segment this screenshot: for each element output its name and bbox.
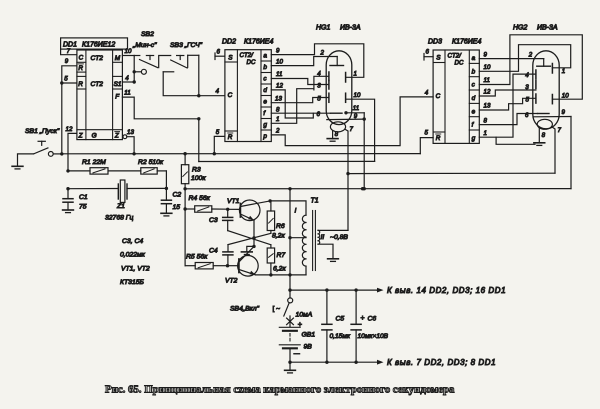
switch SB2 fixed contact (146, 55, 153, 57)
HG1 pin 11 node (344, 111, 347, 114)
wire filament bus (348, 172, 555, 174)
switch SB1 fixed contact (38, 140, 45, 142)
VT2 emitter with arrow (239, 270, 256, 275)
svg-text:0,022мк: 0,022мк (120, 252, 146, 259)
svg-text:g: g (263, 122, 267, 129)
IC DD2 body (225, 50, 271, 142)
wire SB3 right contact down (187, 55, 189, 67)
DD3 pin 6 set stub (423, 54, 425, 61)
HG1 pin 10 wire to bus2 (346, 99, 375, 161)
svg-text:8: 8 (335, 131, 339, 138)
svg-text:SB2: SB2 (141, 31, 154, 38)
svg-text:b: b (472, 68, 476, 75)
svg-text:12: 12 (276, 83, 283, 90)
svg-text:1: 1 (484, 130, 487, 137)
T1 secondary winding II (318, 230, 320, 244)
svg-text:12: 12 (66, 126, 73, 133)
svg-text:C: C (436, 93, 441, 100)
VT1 collector (240, 201, 270, 207)
wire battery minus down (289, 348, 291, 362)
HG1 segment pin 10 bar (345, 93, 347, 102)
DD2 pin 5 reset wire (214, 136, 225, 153)
wire DD2 a to HG1 pin 1 (wrap over top) (271, 44, 364, 78)
svg-text:2: 2 (320, 50, 325, 57)
HG1 grid 2 electrode (336, 57, 338, 66)
HG1 segment pin 5 bar (328, 93, 330, 102)
svg-text:C: C (79, 55, 84, 62)
svg-text:6: 6 (317, 111, 321, 118)
HG1 segment pin 4 bar (328, 72, 330, 81)
svg-text:ИВ-3А: ИВ-3А (340, 25, 361, 32)
svg-text:К выв. 14 DD2, DD3; 16 DD1: К выв. 14 DD2, DD3; 16 DD1 (387, 286, 506, 295)
wire R5 to VT2 base (228, 265, 239, 267)
wire positive rail to arrow (290, 289, 378, 291)
svg-text:+: + (361, 315, 365, 322)
svg-text:15: 15 (173, 204, 181, 211)
svg-text:Рис. 65. Принципиальная схема: Рис. 65. Принципиальная схема карманного… (105, 383, 455, 395)
wire DD2 d to HG1 pin 6 line (271, 90, 313, 118)
svg-text:С6: С6 (368, 316, 377, 323)
svg-text:7: 7 (350, 126, 354, 133)
wire clock bus (199, 160, 375, 162)
svg-text:VT1: VT1 (227, 198, 240, 205)
svg-text:R: R (78, 81, 83, 88)
HG2 grid 6 electrode (538, 113, 550, 115)
battery minus ground (289, 362, 291, 370)
svg-text:8: 8 (484, 117, 488, 124)
svg-text:6: 6 (525, 112, 529, 119)
svg-text:10: 10 (125, 48, 132, 55)
svg-text:R3: R3 (192, 167, 201, 174)
svg-text:S: S (228, 54, 233, 61)
switch SB1 moving contact arm (34, 148, 48, 154)
svg-text:DD1: DD1 (63, 41, 77, 48)
IC DD1 K176IE12 label box (61, 38, 128, 49)
svg-text:4: 4 (525, 72, 529, 79)
svg-text:e: e (263, 99, 267, 106)
svg-text:7: 7 (558, 127, 562, 134)
wire DD3 e to HG2 pin 5 (479, 98, 536, 110)
svg-text:S: S (436, 55, 441, 62)
svg-text:g: g (472, 135, 476, 142)
svg-text:C3, C4: C3, C4 (122, 238, 143, 245)
svg-text:HG1: HG1 (316, 25, 331, 32)
svg-text:8: 8 (276, 107, 280, 114)
HG2 segment pin 3 bar (535, 80, 537, 89)
svg-text:R: R (436, 135, 441, 142)
svg-text:DD2: DD2 (222, 39, 236, 46)
wire SB2 right contact to SB3 (159, 56, 171, 68)
DD1 pin 10 riser (133, 56, 135, 83)
T1 center tap wire (290, 237, 306, 239)
svg-text:C5: C5 (336, 316, 345, 323)
svg-text:75: 75 (79, 204, 87, 211)
HG1 grid pin 9 wire (327, 118, 364, 121)
svg-text:C: C (228, 92, 233, 99)
svg-text:I: I (295, 208, 297, 215)
svg-text:a: a (472, 55, 476, 62)
svg-text:32768 Гц: 32768 Гц (105, 215, 133, 222)
wire DD2 p carry to DD3 C input (271, 97, 433, 146)
svg-text:R5 56к: R5 56к (186, 254, 208, 261)
DD1 reset riser to SB1 node (61, 83, 63, 154)
svg-text:13: 13 (484, 103, 491, 110)
svg-text:~0,8В: ~0,8В (330, 234, 348, 241)
svg-text:10: 10 (484, 64, 491, 71)
DD1 pin 5 wire (62, 82, 77, 84)
HG2 filament (537, 119, 552, 129)
svg-text:b: b (263, 64, 267, 71)
VT1 emitter with arrow (240, 214, 254, 220)
svg-text:3: 3 (317, 82, 321, 89)
wire DD2 f to HG1 pin 6 (271, 112, 330, 114)
svg-text:11: 11 (124, 90, 130, 97)
svg-text:C1: C1 (79, 194, 88, 201)
wire DD2 g riser to pin 4 (314, 76, 329, 90)
wire SB1 to reset node (53, 153, 62, 155)
capacitor C5 0.15uF (326, 290, 328, 324)
svg-text:~: ~ (276, 306, 280, 313)
crystal Z1 32768 Hz (68, 188, 118, 190)
svg-text:11: 11 (276, 71, 282, 78)
HG1 pin 7 wire to filament supply (345, 129, 348, 230)
HG2 pin 9 wire to anode bus (533, 116, 571, 118)
svg-text:11: 11 (484, 77, 490, 84)
wire anode supply bus (185, 188, 571, 190)
svg-text:4: 4 (425, 89, 429, 96)
svg-text:VT2: VT2 (225, 277, 238, 284)
svg-text:GB1: GB1 (302, 332, 316, 339)
svg-text:[: [ (273, 306, 275, 313)
wire R4 to VT1 base (228, 208, 241, 210)
svg-text:R7: R7 (277, 252, 286, 259)
wire DD3 g to HG2 pin 4 (479, 74, 536, 137)
svg-text:К выв. 7 DD2, DD3; 8 DD1: К выв. 7 DD2, DD3; 8 DD1 (387, 358, 496, 367)
HG2 pin 7 wire to filament bus (552, 127, 555, 173)
svg-text:5: 5 (317, 95, 321, 102)
svg-text:R4 56к: R4 56к (189, 195, 211, 202)
svg-text:8,2к: 8,2к (272, 233, 285, 240)
svg-text:К176ИЕ4: К176ИЕ4 (452, 39, 481, 46)
svg-text:4: 4 (317, 70, 321, 77)
svg-text:9: 9 (484, 51, 488, 58)
wire DD2 g to HG1 pin 4 (271, 89, 314, 124)
switch SB2 arm (134, 55, 140, 57)
HG2 segment pin 10 bar (551, 95, 553, 104)
svg-text:К176ИЕ12: К176ИЕ12 (82, 41, 115, 48)
wire reset bus (62, 153, 421, 155)
svg-text:100к: 100к (191, 175, 206, 182)
svg-text:1: 1 (354, 71, 357, 78)
svg-text:1: 1 (562, 68, 565, 75)
switch SB3 lower throw contact (163, 71, 174, 73)
svg-text:DD3: DD3 (428, 39, 442, 46)
svg-text:R6: R6 (276, 223, 285, 230)
T1 primary bottom wire (305, 266, 307, 275)
switch SB4 arm (284, 303, 289, 316)
HG1 pin 8 to ground (332, 131, 334, 139)
svg-text:d: d (263, 87, 267, 94)
svg-text:DC: DC (247, 59, 256, 66)
svg-text:6,2к: 6,2к (273, 265, 286, 272)
svg-text:КТ315Б: КТ315Б (120, 279, 144, 286)
switch SB3 arm (171, 60, 188, 68)
DD1 pin 9 wire (62, 66, 77, 83)
svg-text:7: 7 (67, 48, 71, 55)
VT2 collector (239, 246, 254, 262)
svg-text:T1: T1 (311, 197, 319, 204)
svg-text:12: 12 (484, 89, 491, 96)
svg-text:5: 5 (425, 130, 429, 137)
svg-text:13: 13 (127, 129, 134, 136)
resistor R3 100k (184, 154, 186, 165)
svg-text:R: R (78, 65, 83, 72)
wire DD2 e to HG1 pin 5 (271, 98, 329, 103)
IC DD1 body (77, 50, 123, 140)
HG1 filament (330, 122, 345, 132)
svg-text:DC: DC (455, 59, 464, 66)
svg-text:9: 9 (562, 109, 566, 116)
svg-text:—: — (294, 352, 300, 358)
wire VT1 collector to primary (270, 201, 306, 215)
svg-text:ИВ-3А: ИВ-3А (537, 25, 558, 32)
svg-text:CT2: CT2 (91, 55, 104, 62)
svg-text:9: 9 (65, 58, 69, 65)
capacitor C2 15 (165, 188, 167, 200)
wire DD3 a to HG2 pin 2 (479, 58, 543, 60)
HG1 pins 9-11 riser to anode bus (363, 113, 365, 189)
wire DD3 b to HG2 pin 1 (wrap) (479, 45, 570, 72)
svg-text:SB4„Вкл": SB4„Вкл" (230, 306, 260, 313)
svg-text:M: M (115, 55, 121, 62)
wire DD3 f to HG2 pin 6 (479, 114, 537, 125)
svg-text:C4: C4 (209, 248, 218, 255)
svg-text:HG2: HG2 (513, 25, 528, 32)
svg-text:R1 22М: R1 22М (82, 159, 106, 166)
svg-text:10: 10 (276, 58, 283, 65)
switch SB1 ground (18, 154, 34, 166)
svg-text:К176ИЕ4: К176ИЕ4 (244, 39, 273, 46)
svg-text:R: R (228, 134, 233, 141)
svg-text:0,15мк: 0,15мк (330, 333, 351, 340)
svg-text:9: 9 (354, 113, 358, 120)
wire DD2 b to HG1 pin 2 (271, 57, 337, 66)
wire SB3 lower contact riser (163, 72, 199, 96)
svg-text:10мк×10В: 10мк×10В (358, 333, 389, 340)
emitter common ground tap (247, 246, 254, 252)
svg-text:4: 4 (216, 88, 220, 95)
IC DD3 body (433, 50, 479, 143)
T1 secondary bottom to ground (318, 244, 333, 259)
svg-text:10: 10 (354, 92, 361, 99)
svg-text:6: 6 (217, 48, 221, 55)
switch SB1 open terminal circle (48, 152, 53, 157)
switch SB3 fixed contact (177, 55, 184, 57)
switch SB2 pivot circle (141, 69, 146, 74)
svg-text:1: 1 (276, 116, 279, 123)
svg-text:d: d (472, 95, 476, 102)
switch SB4 circle (288, 298, 293, 303)
svg-text:10мА: 10мА (296, 312, 313, 319)
wire DD3 g lower branch to HG2 pin 8 node (496, 137, 535, 144)
capacitor C1 75 (67, 189, 69, 199)
svg-text:SB3 „ГСЧ": SB3 „ГСЧ" (170, 42, 203, 49)
svg-text:Z1: Z1 (116, 203, 125, 210)
DD2 pin 6 set stub (214, 53, 216, 60)
wire R2 to crystal node (165, 171, 167, 189)
HG2 segment pin 1 bar (551, 64, 553, 74)
DD1 pin 4 wire (S1 input) (122, 81, 134, 83)
HG1 segment pin 3 bar (328, 81, 330, 90)
svg-text:C2: C2 (173, 192, 182, 199)
wire DD3 d to HG2 pin 3 (479, 90, 536, 96)
T1 secondary top wire to filaments (318, 229, 348, 231)
wire negative rail to arrow (290, 361, 378, 363)
svg-text:a: a (263, 53, 267, 60)
wire SB2 pivot (134, 71, 141, 73)
HG2 segment pin 5 bar (535, 94, 537, 103)
DD1 pin 13 wire (Z-bar output) with inversion circle (123, 135, 127, 139)
wire C3 cross-coupling diagonal (228, 231, 271, 245)
svg-text:SB1 „Пуск": SB1 „Пуск" (25, 128, 60, 135)
HG2 segment pin 4 bar (535, 70, 537, 79)
T1 core (312, 211, 314, 271)
DD1 pin 12 wire (68, 133, 77, 171)
wire to DD2 clock input (198, 55, 200, 95)
wire supply riser (289, 189, 291, 298)
svg-text:„Мин-с": „Мин-с" (132, 42, 157, 49)
svg-text:5: 5 (526, 96, 530, 103)
wire DD2 c to HG1 pin 3 (271, 79, 329, 85)
svg-text:6: 6 (426, 49, 430, 56)
wire C4 cross-coupling diagonal (228, 233, 271, 244)
capacitor C6 10uF electrolytic (355, 290, 357, 324)
DD1 pin 10 wire (M output) (122, 55, 134, 57)
svg-text:G: G (92, 133, 97, 140)
svg-text:VT1, VT2: VT1, VT2 (121, 266, 150, 273)
svg-text:2: 2 (528, 52, 533, 59)
svg-text:8: 8 (542, 132, 546, 139)
wire VT2 emitter line (256, 274, 307, 276)
VT1 emitter wire down (253, 220, 255, 246)
svg-text:2: 2 (275, 128, 280, 135)
HG1 segment pin 1 bar (345, 73, 347, 83)
svg-text:3: 3 (525, 84, 529, 91)
svg-text:5: 5 (64, 76, 68, 83)
svg-text:II: II (321, 234, 325, 241)
svg-text:p: p (262, 133, 267, 140)
indicator HG2 envelope (533, 51, 559, 129)
DD3 pin 5 reset wire (420, 138, 433, 154)
svg-text:9: 9 (276, 47, 280, 54)
svg-text:S1: S1 (114, 81, 122, 88)
svg-text:R2 510к: R2 510к (138, 159, 164, 166)
svg-text:e: e (472, 108, 476, 115)
HG2 pin 8 to ground (538, 128, 540, 143)
svg-text:CT2: CT2 (91, 81, 104, 88)
HG2 grid 2 electrode (543, 59, 545, 67)
svg-text:5: 5 (216, 129, 220, 136)
wire DD3 c to HG2 pin 10 (outer wrap) (479, 35, 582, 99)
HG1 grid 6 electrode (331, 112, 343, 114)
indicator HG1 envelope (326, 51, 352, 125)
DD1 pin 11 wire (F output) (122, 97, 198, 161)
svg-text:C3: C3 (209, 217, 218, 224)
svg-text:10: 10 (562, 93, 569, 100)
svg-text:13: 13 (275, 95, 282, 102)
svg-text:4: 4 (125, 75, 129, 82)
svg-text:11: 11 (353, 105, 359, 112)
svg-text:9В: 9В (304, 344, 313, 351)
DD1 pin 7 wire from label box (61, 49, 77, 55)
